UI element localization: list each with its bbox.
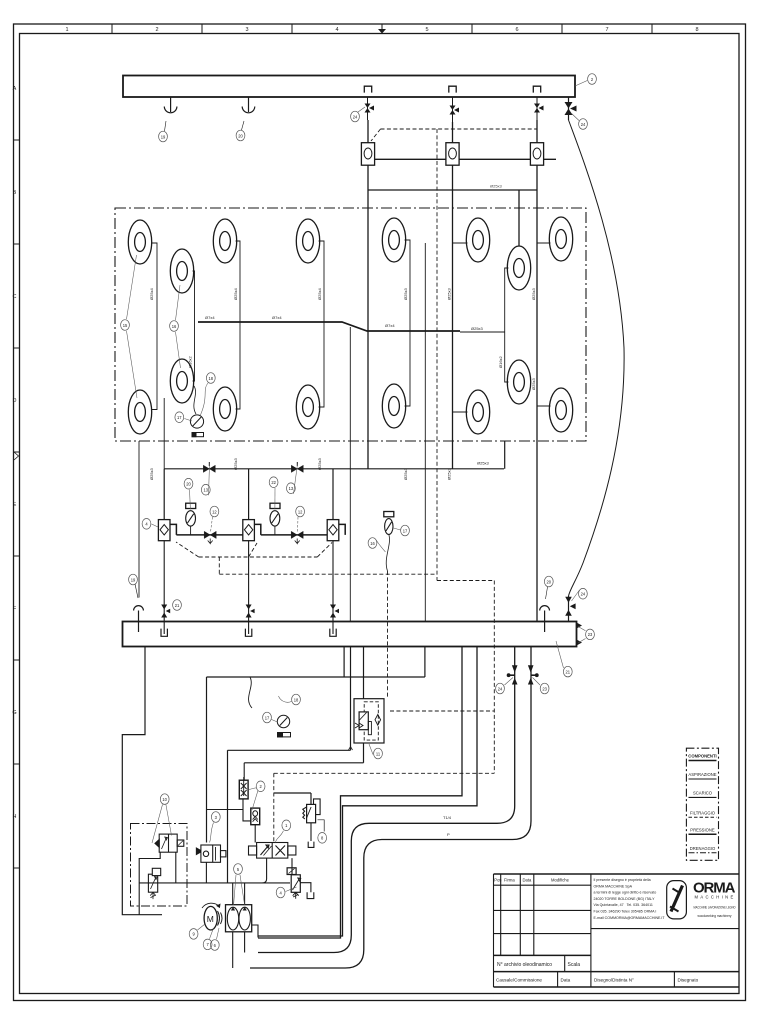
svg-text:M: M — [207, 914, 214, 924]
svg-text:8: 8 — [695, 27, 698, 33]
svg-text:Disegnato: Disegnato — [678, 978, 699, 983]
svg-text:12: 12 — [298, 509, 303, 514]
svg-text:PRESSIONE: PRESSIONE — [690, 828, 715, 833]
svg-text:COMPONENTI: COMPONENTI — [688, 754, 716, 759]
svg-text:24: 24 — [581, 122, 586, 127]
svg-text:FILTRAGGIO: FILTRAGGIO — [690, 810, 716, 815]
svg-text:23: 23 — [588, 632, 593, 637]
svg-text:T1/4: T1/4 — [443, 815, 452, 820]
svg-text:24: 24 — [581, 592, 586, 597]
svg-text:Ø25x3: Ø25x3 — [233, 457, 238, 470]
svg-text:20: 20 — [238, 133, 243, 138]
svg-text:Ø16x2: Ø16x2 — [498, 355, 503, 368]
svg-text:13: 13 — [204, 488, 209, 493]
svg-text:24: 24 — [498, 686, 503, 691]
svg-text:a termini di legge ogni diritt: a termini di legge ogni diritto è riserv… — [594, 891, 657, 895]
svg-text:13: 13 — [289, 486, 294, 491]
svg-text:Ø7x4: Ø7x4 — [272, 315, 282, 320]
svg-text:16: 16 — [172, 324, 177, 329]
svg-text:16: 16 — [370, 541, 375, 546]
svg-text:SCARICO: SCARICO — [693, 791, 713, 796]
svg-text:4: 4 — [335, 27, 338, 33]
svg-text:11: 11 — [376, 751, 381, 756]
svg-text:20: 20 — [547, 579, 552, 584]
svg-text:Ø25x3: Ø25x3 — [477, 461, 490, 466]
svg-text:ORMA MACCHINE SpA: ORMA MACCHINE SpA — [594, 884, 633, 888]
svg-text:Data: Data — [523, 878, 533, 883]
svg-text:17: 17 — [403, 528, 408, 533]
svg-text:10: 10 — [162, 797, 167, 802]
svg-text:D: D — [13, 398, 17, 404]
svg-text:Ø7x4: Ø7x4 — [205, 315, 215, 320]
svg-text:MACCHINE: MACCHINE — [695, 895, 736, 900]
svg-text:Fax 035. 346290 Telex 305485: Fax 035. 346290 Telex 305485 ORMA I — [594, 910, 657, 914]
svg-text:MACCHINE LAVORAZIONE LEGNO: MACCHINE LAVORAZIONE LEGNO — [694, 905, 736, 909]
svg-text:Ø25x3: Ø25x3 — [447, 287, 452, 300]
svg-text:1: 1 — [65, 27, 68, 33]
svg-text:Ø25x4: Ø25x4 — [149, 287, 154, 300]
svg-text:Scala: Scala — [568, 962, 581, 968]
svg-text:A: A — [13, 86, 17, 92]
svg-text:Ø25x4: Ø25x4 — [317, 287, 322, 300]
svg-text:2: 2 — [155, 27, 158, 33]
svg-text:H: H — [13, 814, 17, 820]
svg-text:5: 5 — [425, 27, 428, 33]
svg-text:Ø25x3: Ø25x3 — [149, 467, 154, 480]
svg-text:22: 22 — [271, 480, 276, 485]
svg-text:Ø7x4: Ø7x4 — [385, 323, 395, 328]
svg-text:18: 18 — [209, 376, 214, 381]
svg-text:Ø25x3: Ø25x3 — [531, 377, 536, 390]
svg-text:3: 3 — [245, 27, 248, 33]
svg-text:19: 19 — [131, 577, 136, 582]
svg-text:Pos: Pos — [494, 878, 501, 883]
svg-text:Modifiche: Modifiche — [551, 878, 570, 883]
svg-text:7: 7 — [605, 27, 608, 33]
svg-text:Ø25x3: Ø25x3 — [490, 184, 503, 189]
svg-text:17: 17 — [177, 415, 182, 420]
svg-text:17: 17 — [265, 715, 270, 720]
svg-text:P: P — [447, 832, 450, 837]
svg-text:Ø25x4: Ø25x4 — [233, 287, 238, 300]
svg-text:6: 6 — [515, 27, 518, 33]
svg-text:Il presente disegno è propriet: Il presente disegno è proprietà della — [594, 878, 651, 882]
svg-text:Causale/Commissione: Causale/Commissione — [496, 978, 542, 983]
svg-text:E-mail COMMORMA@ORMAMACCHINE.I: E-mail COMMORMA@ORMAMACCHINE.IT — [594, 916, 666, 920]
svg-text:20: 20 — [186, 482, 191, 487]
svg-text:C: C — [13, 294, 17, 300]
svg-text:Ø25x3: Ø25x3 — [403, 287, 408, 300]
svg-text:Firma: Firma — [504, 878, 515, 883]
svg-text:Data: Data — [561, 978, 571, 983]
svg-text:ASPIRAZIONE: ASPIRAZIONE — [688, 772, 716, 777]
svg-text:Ø25x3: Ø25x3 — [317, 457, 322, 470]
svg-text:15: 15 — [123, 323, 128, 328]
svg-text:Ø16x2: Ø16x2 — [188, 355, 193, 368]
svg-text:Ø25x3: Ø25x3 — [471, 326, 484, 331]
svg-text:G: G — [12, 710, 16, 716]
svg-text:E: E — [13, 502, 17, 508]
svg-text:21: 21 — [566, 669, 571, 674]
svg-text:Ø25x3: Ø25x3 — [531, 287, 536, 300]
svg-text:N° archivio oleodinamico: N° archivio oleodinamico — [497, 962, 552, 968]
svg-text:12: 12 — [212, 509, 217, 514]
svg-text:24020 TORRE BOLDONE (BG) ITALY: 24020 TORRE BOLDONE (BG) ITALY — [594, 897, 656, 901]
svg-text:Disegno/Distinta N°: Disegno/Distinta N° — [594, 978, 634, 983]
svg-text:19: 19 — [161, 134, 166, 139]
svg-text:24: 24 — [353, 114, 358, 119]
svg-text:18: 18 — [294, 697, 299, 702]
svg-text:21: 21 — [175, 603, 180, 608]
svg-text:B: B — [13, 190, 17, 196]
svg-text:23: 23 — [542, 686, 547, 691]
svg-text:woodworking machinery: woodworking machinery — [698, 914, 732, 918]
svg-text:DRENAGGIO: DRENAGGIO — [690, 846, 716, 851]
svg-text:Via Quintavalle, 47 Tel. 035: Via Quintavalle, 47 Tel. 035. 364011 — [594, 903, 653, 907]
